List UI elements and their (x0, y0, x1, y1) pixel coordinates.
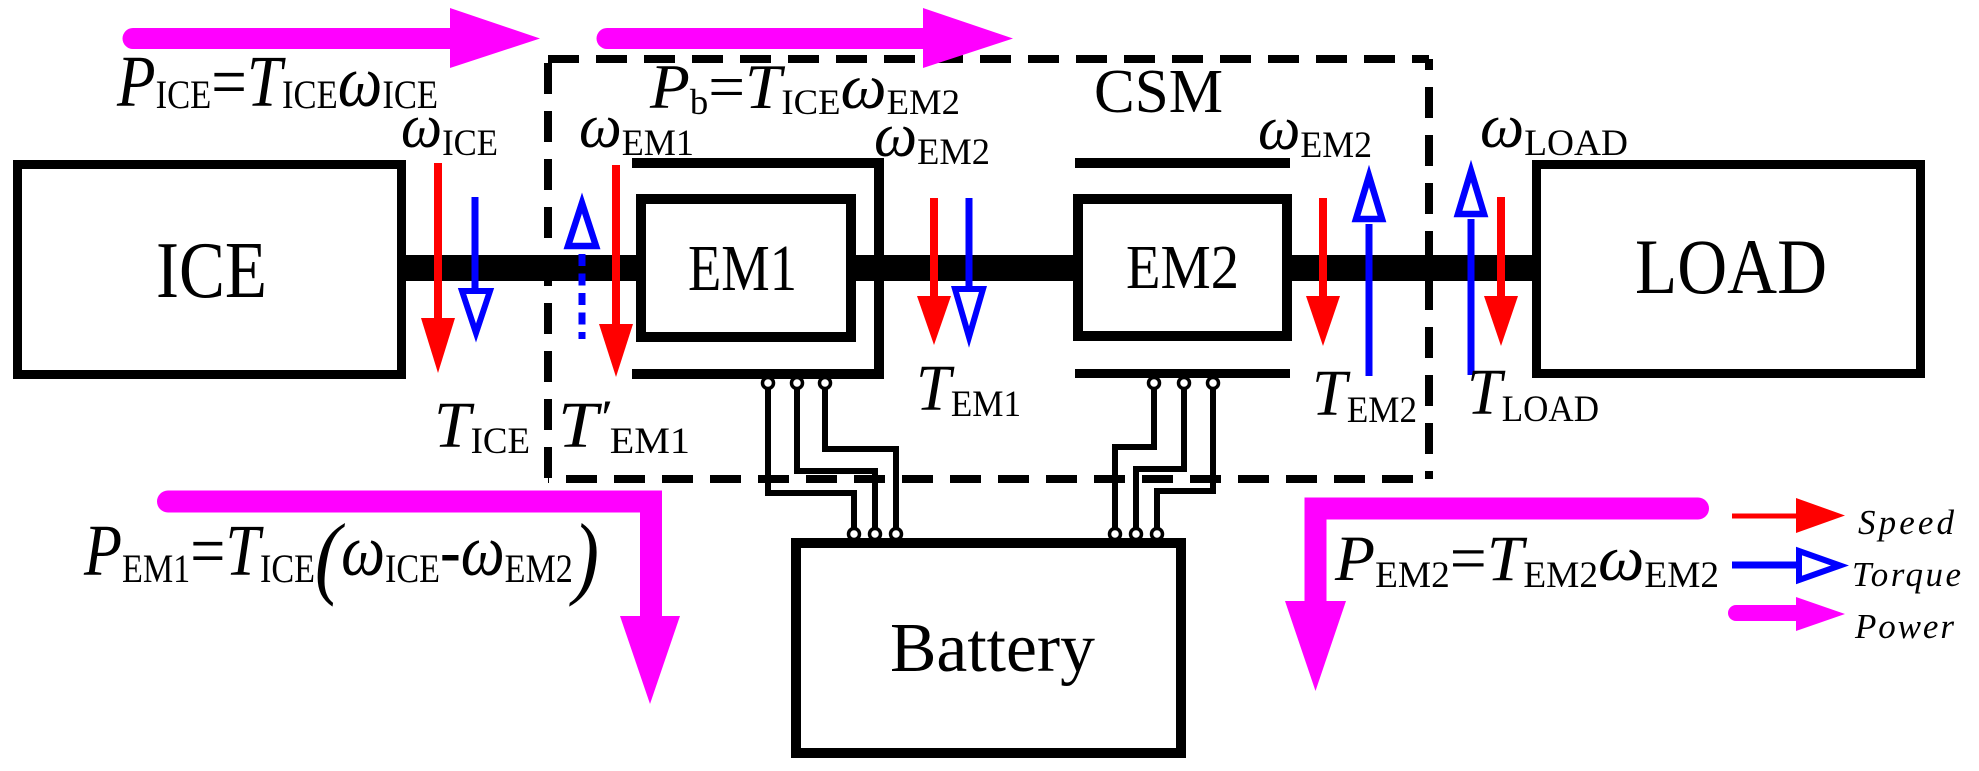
label omega_LOAD (1480, 92, 1628, 164)
label T_ICE (434, 389, 530, 462)
EM2 stator bottom bar (1075, 369, 1290, 378)
Battery box (796, 543, 1181, 753)
terminal node 12 (1152, 529, 1163, 540)
torque arrow T_ICE (down) (472, 197, 479, 292)
legend label Power (1854, 607, 1954, 646)
EM1 box (641, 199, 851, 337)
label P_EM2=T_EM2*w_EM2 (1334, 523, 1719, 596)
torque arrow T_LOAD (up) (1458, 171, 1484, 214)
svg-text:EM2: EM2 (1126, 232, 1239, 301)
label T_LOAD (1467, 355, 1599, 429)
legend speed arrow (1732, 514, 1800, 519)
wire EM2-battery 2 (1136, 383, 1184, 534)
terminal node 5 (1179, 378, 1190, 389)
LOAD box (1537, 165, 1921, 374)
label T_EM2 (1312, 357, 1417, 431)
svg-text:Battery: Battery (890, 610, 1095, 687)
terminal node 9 (891, 529, 902, 540)
speed arrow omega_LOAD (1497, 197, 1505, 300)
label LOAD (1635, 223, 1827, 310)
speed arrow omega_EM1 (612, 165, 620, 328)
wire: shaft EM2 to LOAD (1287, 255, 1537, 281)
label omega_EM2 right (1258, 95, 1372, 165)
wire: shaft EM1 to EM2 (851, 255, 1083, 281)
label omega_EM1 (579, 92, 694, 163)
EM2 stator top bar (1075, 158, 1290, 168)
label T_EM1 (916, 352, 1021, 425)
CSM dashed boundary box (548, 59, 1429, 479)
terminal node 8 (870, 529, 881, 540)
torque arrow T_EM1 mid (down) (966, 198, 973, 290)
power arrow P_EM2 elbow (1316, 509, 1699, 604)
legend label Torque (1852, 555, 1961, 594)
label Battery (890, 610, 1095, 687)
EM2 box (1078, 199, 1287, 336)
wire EM2-battery 3 (1157, 383, 1213, 534)
label EM1 (688, 232, 797, 305)
terminal node 2 (792, 378, 803, 389)
label P_EM1=T_ICE(w_ICE-w_EM2) (83, 506, 599, 607)
legend torque arrow (1732, 562, 1798, 569)
speed arrow omega_EM2 right (1319, 198, 1327, 300)
wire: shaft ICE to EM1 (401, 255, 646, 281)
speed arrow omega_ICE (434, 163, 442, 322)
svg-text:CSM: CSM (1094, 57, 1223, 126)
terminal node 3 (820, 378, 831, 389)
ICE box (18, 165, 402, 375)
wire EM1-battery 3 (825, 383, 896, 534)
power arrow P_EM1 elbow (168, 502, 651, 619)
terminal node 7 (849, 529, 860, 540)
terminal node 4 (1149, 378, 1160, 389)
power arrow P_ICE (133, 28, 452, 49)
label ICE (156, 226, 267, 315)
svg-text:ICE: ICE (156, 226, 267, 315)
wire EM1-battery 2 (797, 383, 875, 534)
svg-text:LOAD: LOAD (1635, 223, 1827, 310)
terminal node 10 (1110, 529, 1121, 540)
terminal node 11 (1131, 529, 1142, 540)
label P_b=T_ICE*w_EM2 (649, 51, 960, 122)
torque arrow T'_EM1 (up, dashed) (568, 203, 596, 246)
legend power arrow (1736, 605, 1800, 621)
EM1 stator bracket (632, 163, 879, 374)
label T'_EM1 (558, 389, 690, 462)
torque arrow T_EM2 (up) (1356, 176, 1382, 219)
label omega_EM2 mid (874, 102, 990, 172)
svg-text:EM1: EM1 (688, 232, 797, 305)
terminal node 1 (763, 378, 774, 389)
power arrow P_b (607, 28, 925, 49)
label omega_ICE (401, 92, 498, 163)
wire EM2-battery 1 (1115, 383, 1154, 534)
wire EM1-battery 1 (768, 383, 854, 534)
svg-text:Speed: Speed (1858, 503, 1955, 542)
label P_ICE=T_ICE*w_ICE (116, 41, 438, 122)
label EM2 (1126, 232, 1239, 301)
terminal node 6 (1208, 378, 1219, 389)
legend label Speed (1858, 503, 1955, 542)
label CSM (1094, 57, 1223, 126)
speed arrow omega_EM2 mid (930, 198, 938, 300)
